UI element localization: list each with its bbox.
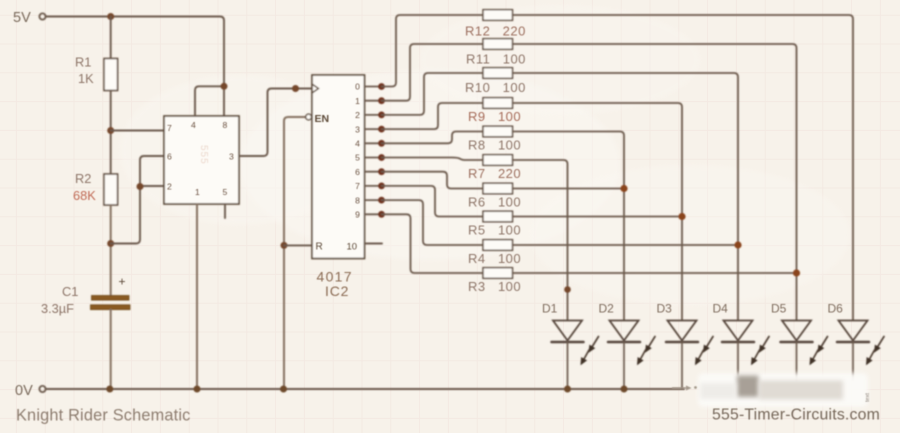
LED D5 — [781, 321, 828, 382]
svg-text:5V: 5V — [13, 10, 31, 26]
watermark erase blob — [698, 373, 868, 407]
wire output4 to R8 — [382, 132, 484, 144]
wire 555 pin5 stub — [224, 204, 226, 218]
resistor R5 — [483, 211, 513, 222]
wire output8 to R4 — [382, 200, 484, 245]
svg-text:D4: D4 — [713, 302, 729, 316]
svg-text:D1: D1 — [542, 302, 558, 316]
node clock wire — [292, 85, 299, 92]
svg-text:4: 4 — [355, 139, 360, 149]
wire output 7 stub — [365, 183, 385, 190]
resistor R9 — [483, 98, 513, 109]
wire R6 to D2 line — [513, 188, 625, 190]
IC2 4017 box — [312, 75, 365, 259]
node 5V/R1 — [107, 13, 114, 20]
wire 555 pin2 stub — [140, 185, 164, 187]
wire R12 to D6 — [513, 15, 854, 320]
LED D4 — [722, 321, 769, 381]
node 0V/EN-R — [280, 386, 287, 393]
wire R pin stub — [284, 244, 312, 246]
node R4/D4 — [734, 241, 741, 248]
svg-text:9: 9 — [355, 210, 360, 220]
svg-text:0: 0 — [355, 82, 360, 92]
wire R3 to D5 line — [513, 272, 797, 274]
svg-text:555: 555 — [198, 145, 209, 165]
svg-text:10: 10 — [347, 242, 358, 253]
wire EN to 0V — [284, 117, 305, 389]
node EN/R — [281, 242, 288, 249]
clock input triangle — [312, 84, 319, 93]
wire output5 to R7 — [382, 158, 484, 161]
wire output 2 stub — [365, 112, 385, 119]
node pin4/pin8 — [221, 83, 228, 90]
wire output 4 stub — [365, 140, 385, 147]
svg-text:6: 6 — [355, 167, 360, 177]
wire R7 to D1 — [513, 160, 568, 320]
rail end arrow remnant — [672, 386, 697, 391]
wire output0 to R12 — [382, 15, 484, 87]
svg-text:R: R — [316, 242, 323, 253]
LED D2 — [608, 321, 655, 390]
svg-text:7: 7 — [355, 181, 360, 191]
EN inverter circle — [306, 114, 312, 120]
svg-text:R10 100: R10 100 — [465, 80, 526, 95]
node pin2/pin6 — [137, 183, 144, 190]
node R6/D2 — [620, 185, 627, 192]
svg-text:R5 100: R5 100 — [468, 223, 521, 238]
wire R11 to D5 — [513, 44, 797, 320]
svg-text:D6: D6 — [828, 302, 844, 316]
resistor R6 — [483, 183, 513, 194]
wire output 1 stub — [365, 97, 385, 104]
svg-text:1K: 1K — [78, 71, 94, 86]
svg-text:D2: D2 — [599, 302, 615, 316]
svg-text:EN: EN — [315, 113, 330, 125]
wire output6 to R6 — [382, 172, 484, 189]
node R1/R2/pin7 — [107, 127, 114, 134]
svg-text:D5: D5 — [771, 302, 787, 316]
resistor R4 — [483, 240, 513, 251]
node 0V/D1 — [564, 386, 571, 393]
svg-text:R3 100: R3 100 — [468, 279, 521, 294]
0V terminal — [39, 386, 45, 392]
wire R2 to C1 — [110, 205, 112, 296]
wire output1 to R11 — [382, 44, 484, 101]
svg-text:R1: R1 — [75, 55, 91, 70]
resistor R10 — [483, 68, 513, 79]
wire output 5 stub — [365, 154, 385, 161]
svg-text:5: 5 — [223, 187, 228, 197]
LED D1 — [552, 321, 599, 390]
svg-text:R9 100: R9 100 — [468, 109, 521, 124]
wire 555 pin6 to pin2 node — [111, 156, 164, 244]
wire R1 to node — [110, 91, 112, 175]
svg-text:Knight Rider Schematic: Knight Rider Schematic — [16, 407, 191, 425]
resistor R12 — [483, 10, 513, 21]
svg-text:text: text — [865, 393, 871, 402]
svg-text:6: 6 — [167, 152, 172, 162]
wire output 0 stub — [365, 83, 385, 90]
svg-text:8: 8 — [355, 195, 360, 205]
wire output 9 stub — [365, 211, 385, 218]
svg-text:4: 4 — [191, 120, 196, 130]
svg-text:3.3µF: 3.3µF — [41, 301, 74, 316]
wire C1 to 0V — [110, 310, 112, 389]
op IC1 555 box — [164, 116, 239, 204]
wire output 8 stub — [365, 197, 385, 204]
svg-text:R4 100: R4 100 — [468, 251, 521, 266]
svg-text:555-Timer-Circuits.com: 555-Timer-Circuits.com — [712, 407, 880, 424]
svg-text:1: 1 — [195, 187, 200, 197]
wire R10 to D4 — [513, 73, 739, 320]
wire 555 pin1 to 0V — [196, 204, 198, 389]
wire node to 555 pin 7 — [111, 130, 164, 132]
svg-text:R8 100: R8 100 — [468, 138, 521, 153]
resistor R8 — [483, 126, 513, 137]
svg-text:0V: 0V — [15, 383, 33, 399]
wire output9 to R3 — [382, 214, 484, 273]
svg-text:R6 100: R6 100 — [468, 195, 521, 210]
resistor R2 — [104, 174, 118, 205]
svg-text:3: 3 — [355, 124, 360, 134]
node R3/D5 — [793, 269, 800, 276]
svg-text:7: 7 — [167, 123, 172, 133]
svg-text:2: 2 — [167, 182, 172, 192]
node D1 anode — [564, 286, 571, 293]
wire 555 pin3 to 4017 clock — [239, 89, 311, 157]
node R5/D3 — [678, 213, 685, 220]
wire 5V to R1 — [110, 17, 112, 59]
svg-text:8: 8 — [223, 120, 228, 130]
svg-text:D3: D3 — [657, 302, 673, 316]
svg-text:5: 5 — [355, 153, 360, 163]
wire R4 to D4 line — [513, 244, 739, 246]
wire R9 to D3 — [513, 103, 683, 320]
wire pin10 stub — [365, 243, 383, 245]
svg-text:C1: C1 — [62, 284, 78, 299]
node 0V/pin1 — [194, 386, 201, 393]
resistor R3 — [483, 268, 513, 279]
svg-text:IC2: IC2 — [325, 283, 349, 299]
wire output 3 stub — [365, 126, 385, 133]
svg-text:R7 220: R7 220 — [468, 166, 521, 181]
svg-text:+: + — [119, 275, 126, 289]
wire 5V rail to 555 pin8 — [46, 17, 224, 117]
svg-text:2: 2 — [355, 110, 360, 120]
svg-text:3: 3 — [229, 152, 234, 162]
resistor R11 — [483, 39, 513, 50]
soft wash patches — [120, 5, 850, 305]
wire output2 to R10 — [382, 73, 484, 115]
wire output3 to R9 — [382, 103, 484, 129]
output digits — [355, 82, 360, 220]
svg-text:1: 1 — [355, 96, 360, 106]
wire output 6 stub — [365, 168, 385, 175]
wire 0V rail — [46, 388, 684, 390]
node 0V/C1 — [106, 386, 113, 393]
wire output7 to R5 — [382, 186, 484, 217]
svg-text:R11 100: R11 100 — [466, 52, 526, 67]
wire 555 pin4 to 5V — [195, 86, 224, 116]
LED D3 — [666, 321, 713, 390]
svg-text:R2: R2 — [75, 171, 91, 186]
node 0V/D2 — [621, 386, 628, 393]
wire R5 to D3 line — [513, 216, 683, 218]
wire R8 to D2 — [513, 132, 625, 321]
resistor R1 — [104, 59, 118, 91]
LED D6 — [837, 321, 884, 381]
resistor R7 — [483, 155, 513, 166]
svg-text:68K: 68K — [73, 188, 96, 203]
5V terminal — [39, 13, 45, 19]
svg-text:R12 220: R12 220 — [465, 24, 526, 39]
capacitor C1 — [91, 296, 131, 310]
node R2/C1/pins2-6 — [107, 240, 114, 247]
